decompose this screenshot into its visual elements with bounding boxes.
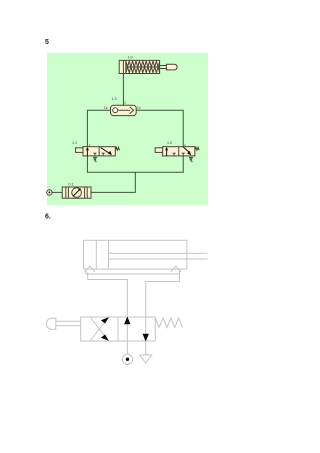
right port triangle [171, 266, 181, 272]
svg-text:0.1: 0.1 [69, 183, 74, 187]
svg-text:2: 2 [124, 101, 126, 105]
exhaust triangle [140, 355, 152, 363]
svg-text:5: 5 [45, 39, 49, 46]
shuttle valve 1.3 [111, 105, 137, 115]
wire from cylinder 1.0 to shuttle 1.3 [122, 74, 124, 106]
svg-text:14: 14 [104, 106, 108, 110]
wire left branch shuttle to valve 1.1 [87, 110, 110, 147]
wire valve 1.1 port1 down [86, 156, 88, 172]
piston rod [109, 253, 208, 259]
return spring [155, 318, 182, 328]
cylinder body [84, 240, 187, 269]
pipe valve to source [126, 341, 128, 354]
wire bus [87, 171, 184, 173]
wire valve 1.2 port1 down [182, 156, 184, 172]
svg-text:1.2: 1.2 [167, 141, 172, 145]
push button actuator [46, 318, 80, 329]
wire source to service unit [52, 191, 62, 193]
svg-text:14: 14 [137, 106, 141, 110]
svg-text:1.1: 1.1 [72, 141, 77, 145]
svg-text:6.: 6. [45, 214, 51, 221]
pipe right port to valve port2 [146, 273, 180, 318]
svg-text:1.3: 1.3 [112, 97, 117, 101]
service unit 0.1 [62, 187, 91, 198]
wire bus to service unit [91, 172, 135, 192]
pipe left port to valve port4 [88, 273, 128, 318]
source circle [122, 354, 132, 364]
cylinder 1.0 [119, 60, 177, 73]
left port triangle [85, 266, 95, 272]
valve left box crossed arrows [90, 317, 109, 341]
compressed air source [47, 190, 52, 195]
wire right branch shuttle to valve 1.2 [136, 110, 183, 147]
green panel [47, 53, 208, 206]
valve 1.1 [76, 147, 120, 162]
valve 4/2 body [81, 317, 156, 341]
svg-text:1.0: 1.0 [128, 56, 133, 60]
manifold line under cylinder [86, 269, 180, 274]
pipe valve to exhaust [145, 341, 147, 355]
valve 1.2 [155, 147, 199, 162]
valve right box straight arrows [124, 317, 149, 342]
